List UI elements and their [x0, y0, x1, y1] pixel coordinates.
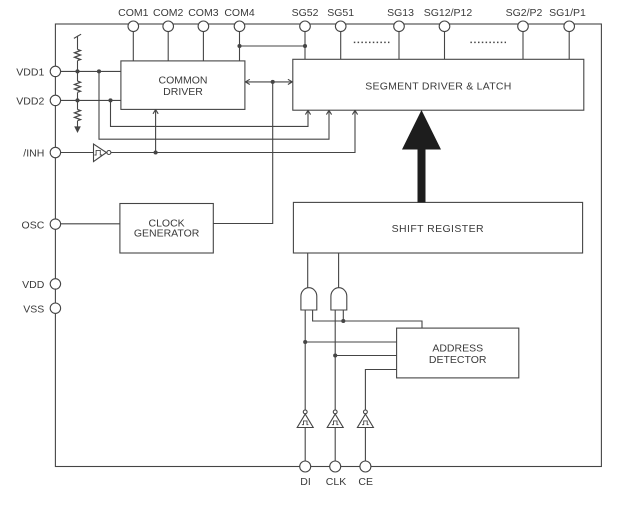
wire shift register to AND gate 1	[307, 253, 309, 289]
pin COM2	[163, 21, 174, 32]
data bus arrow shift register to segment driver	[402, 110, 441, 202]
junction dot VDD1-branch	[97, 69, 101, 73]
wire COM2 to common driver	[167, 27, 169, 61]
wire /INH pin to inverter	[55, 152, 93, 154]
junction dot VDD1-chain	[75, 69, 79, 73]
svg-text:/INH: /INH	[23, 148, 44, 160]
svg-text:COM4: COM4	[224, 7, 254, 19]
resistor chain top tick	[74, 34, 81, 38]
svg-text:COMMON: COMMON	[159, 75, 208, 87]
junction dot DI branch	[303, 340, 307, 344]
svg-text:VDD1: VDD1	[16, 67, 44, 79]
pin COM3	[198, 21, 209, 32]
inverter U2 (DI schmitt)	[303, 410, 307, 414]
block shift register	[293, 202, 582, 253]
svg-text:CE: CE	[358, 476, 373, 488]
AND gate G2	[331, 288, 347, 310]
svg-text:OSC: OSC	[22, 219, 45, 231]
pin VDD2	[50, 95, 60, 105]
svg-text:SG12/P12: SG12/P12	[424, 7, 473, 19]
chip outline border	[55, 24, 601, 467]
junction dot SG52 link	[303, 44, 307, 48]
inverter U1 (/INH schmitt)	[94, 144, 107, 162]
svg-text:ADDRESS: ADDRESS	[432, 342, 483, 354]
pin VDD1	[50, 66, 60, 76]
wire CE branch from address detector	[365, 370, 396, 410]
wire /INH branch up to common driver	[155, 109, 157, 152]
block segment driver & latch	[293, 59, 584, 110]
arrowhead into common driver right	[245, 79, 249, 84]
wire VDD1 rail	[55, 70, 121, 72]
pin SG2/P2	[518, 21, 529, 32]
dotted ellipsis left	[354, 41, 390, 43]
wire G1 right input to address detector	[313, 310, 422, 328]
wire SG12/P12 to segment driver	[444, 27, 446, 59]
pin COM4	[234, 21, 245, 32]
arrowhead into common driver bottom	[153, 110, 158, 114]
svg-text:VDD2: VDD2	[16, 96, 44, 108]
wire DI branch to address detector	[305, 341, 396, 343]
pin SG12/P12	[439, 21, 450, 32]
arrowhead into segment driver left	[288, 79, 292, 84]
wire VDD1 branch down-right to segment driver	[99, 71, 329, 139]
svg-text:SEGMENT DRIVER & LATCH: SEGMENT DRIVER & LATCH	[365, 80, 511, 92]
svg-text:SG52: SG52	[292, 7, 319, 19]
block common driver	[121, 61, 245, 110]
dotted ellipsis right	[470, 41, 506, 43]
pin SG13	[394, 21, 405, 32]
svg-text:GENERATOR: GENERATOR	[134, 228, 200, 240]
wire shift register to AND gate 2	[338, 253, 340, 289]
wire COM4 to common driver	[239, 27, 241, 61]
svg-text:SG13: SG13	[387, 7, 414, 19]
wire SG13 to segment driver	[398, 27, 400, 59]
junction dot CLK branch	[333, 353, 337, 357]
junction dot /INH branch	[154, 150, 158, 154]
inverter U3 (CLK schmitt)	[333, 410, 337, 414]
pin SG52	[300, 21, 311, 32]
svg-text:COM3: COM3	[188, 7, 218, 19]
svg-text:SG1/P1: SG1/P1	[549, 7, 586, 19]
junction dot G2 input	[341, 319, 345, 323]
svg-text:SHIFT REGISTER: SHIFT REGISTER	[392, 223, 484, 235]
svg-text:DRIVER: DRIVER	[163, 86, 203, 98]
arrowhead into segment driver (VDD2 branch)	[305, 110, 310, 114]
pin SG1/P1	[564, 21, 575, 32]
wire SG52 to segment driver	[304, 27, 306, 59]
svg-text:VSS: VSS	[23, 303, 44, 315]
resistor R3	[75, 110, 81, 121]
pin CLK	[330, 461, 341, 472]
block clock generator	[120, 204, 213, 254]
wire COM3 to common driver	[202, 27, 204, 61]
pin COM1	[128, 21, 139, 32]
svg-text:SG2/P2: SG2/P2	[506, 7, 543, 19]
wire inverter to DI pin	[304, 428, 306, 462]
junction dot VDD2-branch	[108, 98, 112, 102]
junction dot VDD2-chain	[75, 98, 79, 102]
wire R2-R3	[77, 93, 79, 110]
wire bidirectional bus common-segment	[245, 81, 293, 83]
block address detector	[397, 328, 519, 378]
pin DI	[300, 461, 311, 472]
svg-text:DETECTOR: DETECTOR	[429, 354, 487, 366]
resistor R2	[75, 81, 81, 92]
svg-text:COM1: COM1	[118, 7, 148, 19]
wire inverter to CLK pin	[334, 428, 336, 462]
svg-text:SG51: SG51	[327, 7, 354, 19]
wire VDD2 branch down-right to segment driver	[111, 100, 309, 126]
arrowhead into segment driver (/INH)	[352, 110, 357, 114]
arrowhead into segment driver (VDD1 branch)	[326, 110, 331, 114]
svg-text:DI: DI	[300, 476, 311, 488]
wire VDD2 rail	[55, 99, 121, 101]
svg-text:COM2: COM2	[153, 7, 183, 19]
wire SG2/P2 to segment driver	[522, 27, 524, 59]
AND gate G1	[301, 288, 317, 310]
pin VDD	[50, 279, 60, 289]
wire R3 to arrow	[77, 121, 79, 127]
pin /INH	[50, 147, 60, 157]
wire DI line (gate1 left input down to pin)	[304, 310, 306, 410]
wire SG51 to segment driver	[340, 27, 342, 59]
pin CE	[360, 461, 371, 472]
pin OSC	[50, 219, 60, 229]
pin VSS	[50, 303, 60, 313]
resistor R1	[75, 49, 81, 60]
wire COM1 to common driver	[132, 27, 134, 61]
inverter U4 (CE schmitt)	[364, 410, 368, 414]
wire CLK line (gate2 left input down to pin)	[334, 310, 336, 410]
wire CLK branch to address detector	[335, 355, 396, 357]
junction dot bus-clock	[271, 80, 275, 84]
wire G2 right input stub	[342, 310, 344, 321]
wire inverter output to segment driver	[111, 110, 355, 152]
wire SG1/P1 to segment driver	[568, 27, 570, 59]
wire resistor chain top	[77, 36, 79, 50]
wire clock branch up to bus	[213, 82, 272, 224]
svg-text:VDD: VDD	[22, 279, 45, 291]
wire R1-R2	[77, 61, 79, 81]
wire COM4-SG52 link	[240, 45, 306, 47]
svg-text:CLK: CLK	[326, 476, 346, 488]
wire OSC to clock generator	[55, 223, 120, 225]
resistor chain down arrow	[74, 126, 81, 133]
wire inverter to CE pin	[364, 428, 366, 462]
pin SG51	[335, 21, 346, 32]
junction dot COM4 link	[237, 44, 241, 48]
